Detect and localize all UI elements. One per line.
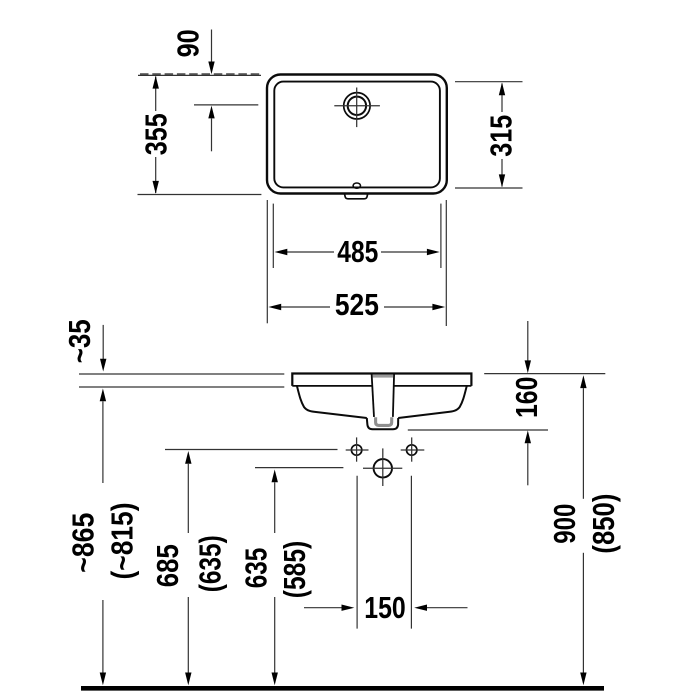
150 extension lines [356, 476, 358, 629]
basin front rim [292, 374, 471, 386]
svg-text:150: 150 [364, 590, 406, 625]
dimension 485 line [287, 251, 334, 253]
svg-text:(585): (585) [277, 541, 312, 599]
mounting hole left [351, 445, 361, 455]
extension line bottom (y=194.5) [138, 194, 262, 196]
svg-text:(635): (635) [192, 535, 227, 592]
dimension 635 line [272, 470, 278, 483]
svg-text:90: 90 [171, 29, 206, 57]
dimension 355 line [155, 77, 157, 112]
extension line top (y=75) [138, 74, 261, 76]
faucet hole crosshair horizontal [334, 105, 380, 107]
basin left wall and bottom [297, 386, 367, 418]
faucet hole outer circle [344, 93, 370, 119]
dimension 160 upper arrow [527, 321, 529, 361]
basin rim bottom edge [292, 385, 371, 387]
drain center reference line [255, 467, 343, 469]
dimension 160 lower arrow [525, 430, 531, 443]
countertop line right [484, 373, 605, 375]
160 bottom reference line [408, 429, 548, 431]
overflow tab below rim (plan) [345, 194, 368, 199]
dimension 90 arrow line [211, 30, 213, 64]
extension line faucet center (y=104.9) [194, 104, 258, 106]
ground line [81, 686, 604, 691]
dimension ~865 line [100, 389, 106, 402]
drain boss outline [367, 418, 398, 429]
svg-text:485: 485 [337, 234, 378, 269]
dimension 900 line [580, 375, 586, 388]
525 extension lines [266, 200, 268, 323]
overflow mark (plan) [353, 183, 360, 188]
svg-text:~35: ~35 [62, 319, 97, 363]
svg-text:~865: ~865 [66, 513, 101, 573]
dimension 315 line [501, 84, 503, 113]
svg-text:315: 315 [483, 115, 518, 157]
overflow column right wall [393, 374, 394, 417]
485 extension lines [272, 204, 274, 268]
dimension 685 line [185, 451, 191, 464]
dimension 150 arrows [304, 607, 342, 609]
315 extension bottom [455, 187, 523, 189]
drain tube gray U [376, 417, 392, 425]
basin outer rim (plan) [267, 75, 447, 194]
overflow column gray slot [373, 375, 393, 378]
dashed hidden edge line above top extension [140, 73, 261, 75]
svg-text:635: 635 [239, 548, 274, 589]
countertop line left bottom [79, 386, 284, 388]
315 extension top [455, 81, 523, 83]
svg-text:160: 160 [509, 377, 544, 419]
svg-text:525: 525 [335, 287, 379, 322]
svg-text:900: 900 [547, 504, 582, 544]
faucet hole crosshair vertical [356, 88, 358, 128]
countertop line left top [79, 373, 284, 375]
svg-text:355: 355 [138, 113, 173, 155]
basin right wall and bottom [398, 386, 467, 418]
overflow column left wall [372, 374, 374, 417]
svg-text:685: 685 [150, 544, 185, 587]
dimension ~35 arrow [102, 325, 104, 361]
dimension 525 line [281, 306, 330, 308]
mounting hole right [407, 445, 417, 455]
basin inner rim (plan) [274, 82, 440, 188]
drain hole [374, 459, 392, 477]
svg-text:(850): (850) [586, 494, 621, 554]
mounting holes reference line [165, 449, 338, 451]
svg-text:(~815): (~815) [105, 503, 140, 580]
faucet hole inner circle [348, 97, 366, 115]
